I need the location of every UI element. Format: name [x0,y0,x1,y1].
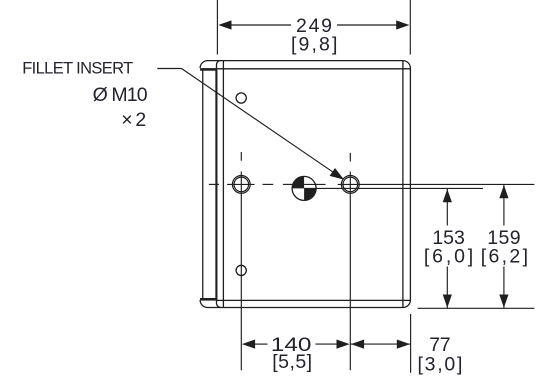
arrowhead 159 up [499,185,508,198]
inner inset line top [217,68,410,70]
159 dimension line upper segment [503,184,505,225]
centroid lower-right black quadrant [304,188,316,200]
svg-text:FILLET INSERT: FILLET INSERT [22,59,133,77]
bottom extension line right (plate edge) [410,314,412,373]
153 dimension line upper segment [446,188,448,225]
arrowhead 249 left [218,20,231,29]
left hole vertical crosshair / extension line [240,172,242,371]
arrowhead 77 right [397,340,410,349]
arrowhead 140 right [337,340,350,349]
arrowhead 249 right [396,20,409,29]
svg-text:×2: ×2 [121,109,146,131]
right mounting hole outer [341,176,359,194]
small hole bottom [236,265,246,275]
top dimension extension line right [409,0,411,55]
bottom dimension line 140 right segment [316,343,338,345]
right hole horizontal crosshair extended right (159 reference line) [338,183,535,185]
159 dimension line lower segment [503,267,505,309]
leader arrowhead [330,168,344,180]
arrowhead 159 down [499,295,508,308]
right hole vertical crosshair / extension line [349,172,351,371]
left mounting hole inner [234,177,249,192]
inner inset line bottom [217,299,410,301]
arrowhead 153 down [443,295,452,308]
top dimension extension line left [216,0,218,55]
svg-text:77: 77 [429,334,450,356]
small hole top [236,93,246,103]
centroid symbol circle [292,176,316,200]
arrowhead 140 left [242,340,255,349]
dimension line 77 [350,343,410,345]
centroid upper-left black quadrant [292,176,304,188]
svg-text:[6,2]: [6,2] [481,245,528,267]
centroid reference line right (153 reference line) [304,187,483,189]
arrowhead 77 left [351,340,364,349]
right hole vertical centerline dash above [349,153,351,162]
arrowhead 153 up [443,189,452,202]
inner inset line left [222,61,224,308]
strip bottom cap bar [200,298,217,301]
strip top cap bar [200,68,217,71]
centerline dash 1 [263,183,274,185]
dimension line 249 right segment [337,24,398,26]
dimension line 249 left segment [232,24,292,26]
bottom dimension line 140 left segment [255,343,268,345]
centerline dash through centroid [304,183,325,185]
svg-text:[3,0]: [3,0] [418,354,463,376]
strip left edge line [202,70,204,298]
right mounting hole inner [343,177,358,192]
inner inset line right [402,61,404,308]
plate outer outline with strip corner arcs (left side open) [200,61,410,308]
svg-text:[5,5]: [5,5] [272,351,312,373]
leader horizontal segment [157,68,181,70]
horizontal centerline tick at plate edge [209,183,219,185]
plate left edge with small corner arcs [217,61,221,308]
leader diagonal segment [182,69,340,177]
thick left edge line [215,70,217,299]
centerline dash 2 [283,183,293,185]
left hole vertical centerline dash above [240,152,242,161]
bottom reference line for vertical dims [418,307,535,309]
left hole horizontal crosshair [227,183,255,185]
left mounting hole outer [232,176,250,194]
svg-text:Ø M10: Ø M10 [93,84,148,106]
svg-text:[6,0]: [6,0] [424,245,473,267]
153 dimension line lower segment [446,267,448,309]
